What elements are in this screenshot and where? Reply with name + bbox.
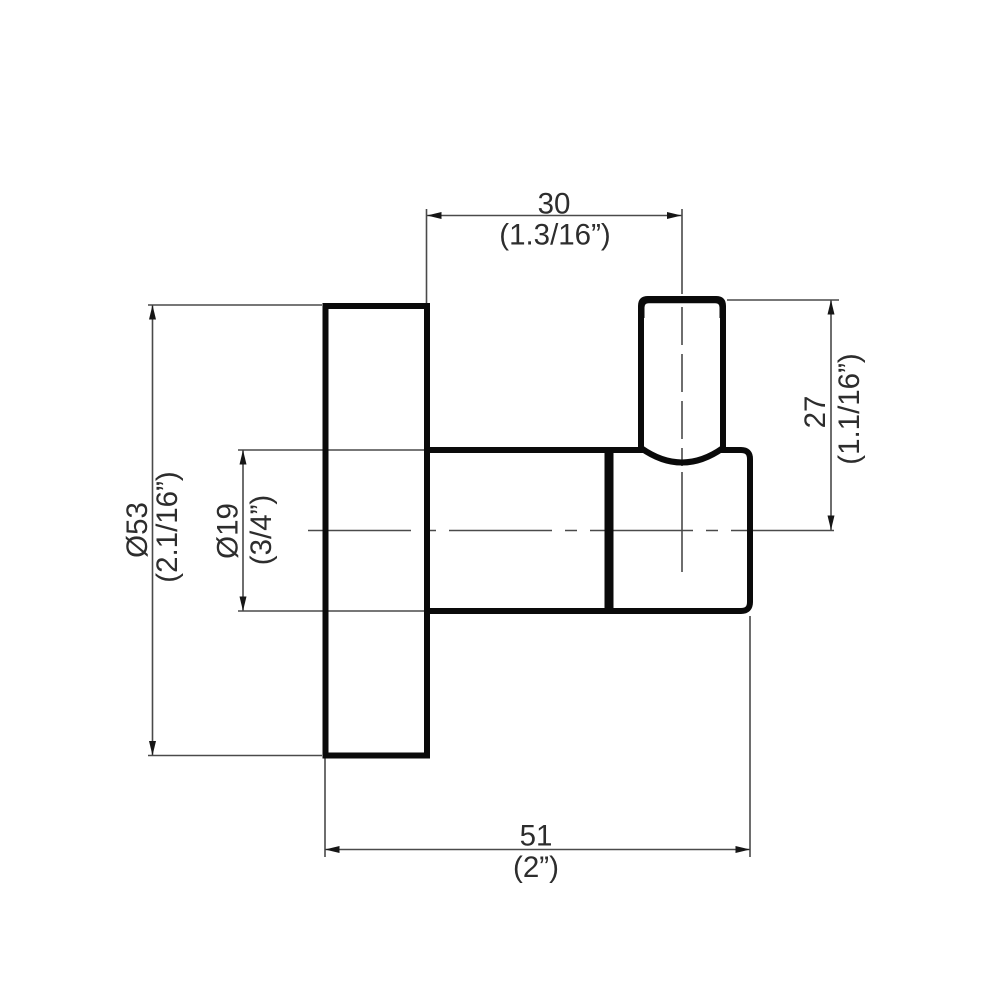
bar bottom edge [427, 608, 612, 614]
cap outline [609, 450, 750, 611]
arrowhead 51 right [736, 846, 751, 853]
svg-text:(2”): (2”) [513, 851, 559, 884]
svg-text:Ø53: Ø53 [121, 502, 154, 558]
dimension line dia53 [152, 305, 154, 756]
svg-text:(1.1/16”): (1.1/16”) [833, 353, 866, 465]
extension line dia19 bottom [238, 610, 424, 612]
arrowhead 30 right [667, 212, 682, 219]
fillet arc post to cap [641, 448, 723, 463]
extension line dia53 top [148, 304, 322, 306]
dimension line 27 [830, 300, 832, 530]
svg-text:(2.1/16”): (2.1/16”) [151, 471, 184, 583]
extension line dia19 top [238, 449, 424, 451]
arrowhead dia19 up [240, 450, 247, 465]
extension line 51 left [324, 758, 326, 857]
arrowhead 30 left [427, 212, 442, 219]
post top cap band [638, 296, 726, 318]
dimension line 51 [325, 849, 750, 851]
joint line bar to cap [605, 447, 614, 614]
extension line dia53 bottom [148, 755, 322, 757]
svg-text:(1.3/16”): (1.3/16”) [499, 219, 611, 252]
wall flange outline [326, 306, 428, 756]
arrowhead 27 down [828, 516, 835, 531]
post left edge [638, 308, 644, 450]
extension line 30 right [681, 209, 683, 294]
dimension line 30 [427, 215, 682, 217]
arrowhead dia19 down [240, 597, 247, 612]
arrowhead dia53 up [149, 305, 156, 320]
dimension line dia19 [242, 450, 244, 611]
arrowhead 51 left [325, 846, 340, 853]
extension line 51 right [749, 616, 751, 857]
svg-text:30: 30 [538, 188, 571, 221]
svg-text:(3/4”): (3/4”) [245, 495, 278, 565]
arrowhead 27 up [828, 300, 835, 315]
arrowhead dia53 down [149, 741, 156, 756]
svg-text:51: 51 [520, 820, 553, 853]
extension line 27 top [727, 299, 839, 301]
svg-text:27: 27 [799, 396, 832, 429]
centerline horizontal axis of bar [308, 530, 834, 532]
svg-text:Ø19: Ø19 [212, 503, 245, 559]
extension line 30 left [426, 209, 428, 304]
centerline vertical axis of post [681, 307, 683, 466]
bar top edge [427, 447, 612, 453]
post right edge [720, 308, 726, 450]
